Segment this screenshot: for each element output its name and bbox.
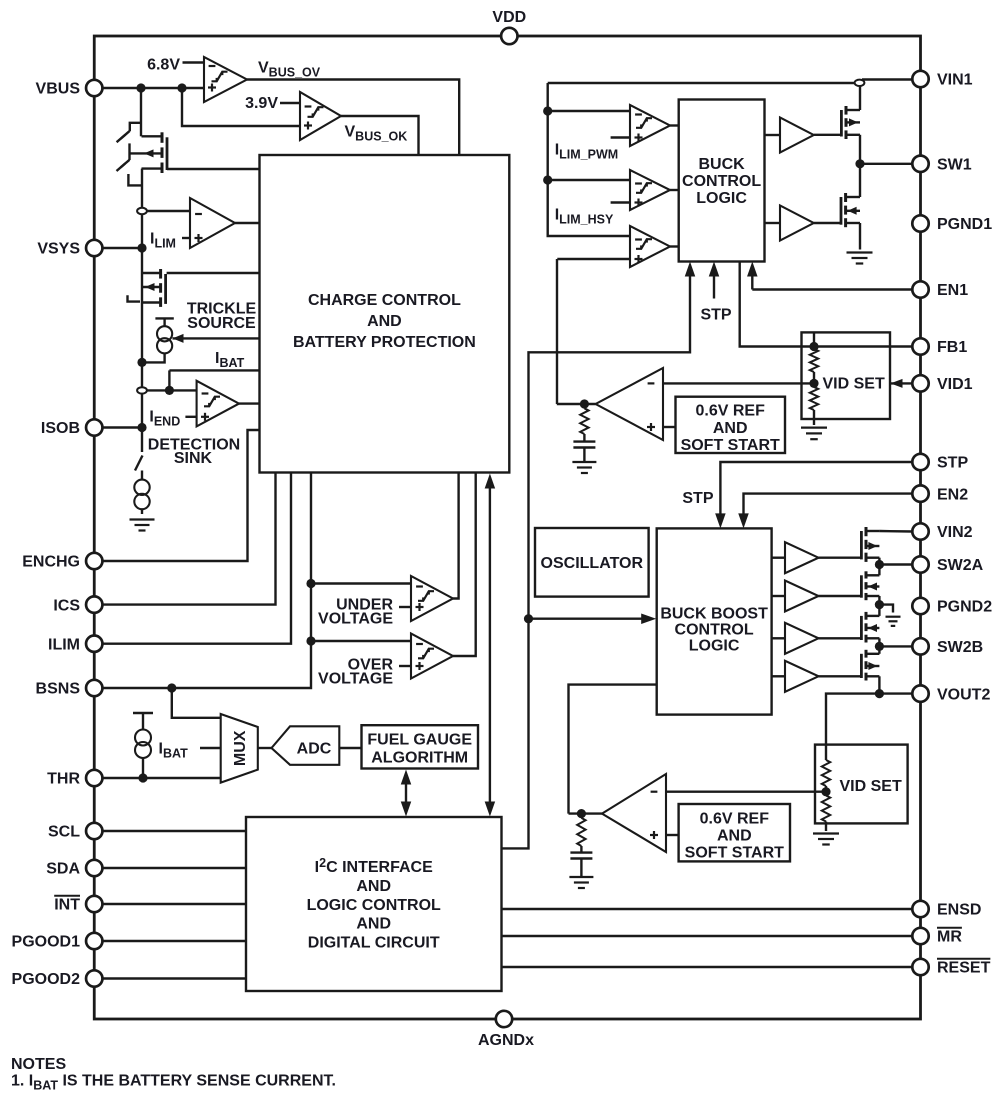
svg-text:MUX: MUX [232, 730, 249, 766]
svg-text:LOGIC: LOGIC [696, 190, 747, 207]
svg-text:STP: STP [700, 306, 731, 323]
svg-text:FB1: FB1 [937, 339, 967, 356]
svg-text:VID SET: VID SET [823, 376, 885, 393]
svg-text:AND: AND [717, 828, 752, 845]
svg-text:BATTERY PROTECTION: BATTERY PROTECTION [293, 334, 476, 351]
svg-text:VOLTAGE: VOLTAGE [318, 671, 393, 688]
svg-text:AND: AND [713, 420, 748, 437]
svg-text:VSYS: VSYS [37, 241, 80, 258]
svg-text:SDA: SDA [46, 861, 80, 878]
svg-text:ISOB: ISOB [41, 420, 80, 437]
svg-text:SCL: SCL [48, 824, 80, 841]
svg-text:SOFT START: SOFT START [681, 437, 780, 454]
svg-text:STP: STP [682, 490, 713, 507]
svg-text:EN1: EN1 [937, 282, 968, 299]
svg-text:SW2B: SW2B [937, 639, 983, 656]
svg-text:EN2: EN2 [937, 486, 968, 503]
svg-text:PGND2: PGND2 [937, 599, 992, 616]
svg-text:PGND1: PGND1 [937, 216, 992, 233]
svg-text:ICS: ICS [53, 597, 80, 614]
svg-text:VDD: VDD [492, 9, 526, 26]
svg-text:0.6V REF: 0.6V REF [700, 811, 770, 828]
svg-text:DIGITAL CIRCUIT: DIGITAL CIRCUIT [308, 935, 440, 952]
svg-text:FUEL GAUGE: FUEL GAUGE [367, 732, 472, 749]
svg-text:SINK: SINK [174, 450, 213, 467]
svg-text:VOLTAGE: VOLTAGE [318, 611, 393, 628]
svg-text:PGOOD1: PGOOD1 [12, 934, 81, 951]
svg-text:AND: AND [356, 916, 391, 933]
svg-text:LOGIC: LOGIC [689, 638, 740, 655]
svg-text:SW1: SW1 [937, 157, 972, 174]
svg-text:SOFT START: SOFT START [685, 845, 784, 862]
svg-text:I2C INTERFACE: I2C INTERFACE [315, 856, 433, 876]
svg-text:ADC: ADC [297, 740, 332, 757]
svg-text:SOURCE: SOURCE [187, 315, 256, 332]
svg-text:BSNS: BSNS [36, 681, 81, 698]
svg-text:BUCK BOOST: BUCK BOOST [660, 606, 768, 623]
svg-text:1. IBAT IS THE BATTERY SENSE C: 1. IBAT IS THE BATTERY SENSE CURRENT. [11, 1073, 336, 1093]
svg-text:PGOOD2: PGOOD2 [12, 971, 81, 988]
svg-text:CONTROL: CONTROL [675, 622, 754, 639]
svg-text:ILIM: ILIM [48, 636, 80, 653]
svg-text:ALGORITHM: ALGORITHM [371, 750, 468, 767]
svg-text:ENSD: ENSD [937, 902, 981, 919]
svg-text:VIN2: VIN2 [937, 524, 973, 541]
svg-text:INT: INT [54, 897, 80, 914]
svg-text:BUCK: BUCK [698, 156, 745, 173]
svg-text:VOUT2: VOUT2 [937, 686, 990, 703]
svg-text:VBUS: VBUS [36, 81, 81, 98]
svg-text:LOGIC CONTROL: LOGIC CONTROL [307, 897, 441, 914]
svg-text:SW2A: SW2A [937, 557, 984, 574]
svg-text:STP: STP [937, 455, 968, 472]
svg-text:VID1: VID1 [937, 376, 973, 393]
svg-text:CHARGE CONTROL: CHARGE CONTROL [308, 292, 461, 309]
svg-text:3.9V: 3.9V [245, 95, 278, 112]
svg-text:RESET: RESET [937, 960, 991, 977]
svg-text:AND: AND [367, 313, 402, 330]
svg-text:ENCHG: ENCHG [22, 554, 80, 571]
svg-text:AGNDx: AGNDx [478, 1032, 534, 1049]
svg-text:MR: MR [937, 929, 962, 946]
svg-text:AND: AND [356, 878, 391, 895]
svg-text:6.8V: 6.8V [147, 57, 180, 74]
svg-text:0.6V REF: 0.6V REF [696, 403, 766, 420]
svg-text:VIN1: VIN1 [937, 72, 973, 89]
svg-text:VID SET: VID SET [840, 778, 902, 795]
svg-text:OSCILLATOR: OSCILLATOR [541, 555, 644, 572]
svg-text:THR: THR [47, 771, 80, 788]
svg-text:NOTES: NOTES [11, 1056, 66, 1073]
svg-text:CONTROL: CONTROL [682, 173, 761, 190]
